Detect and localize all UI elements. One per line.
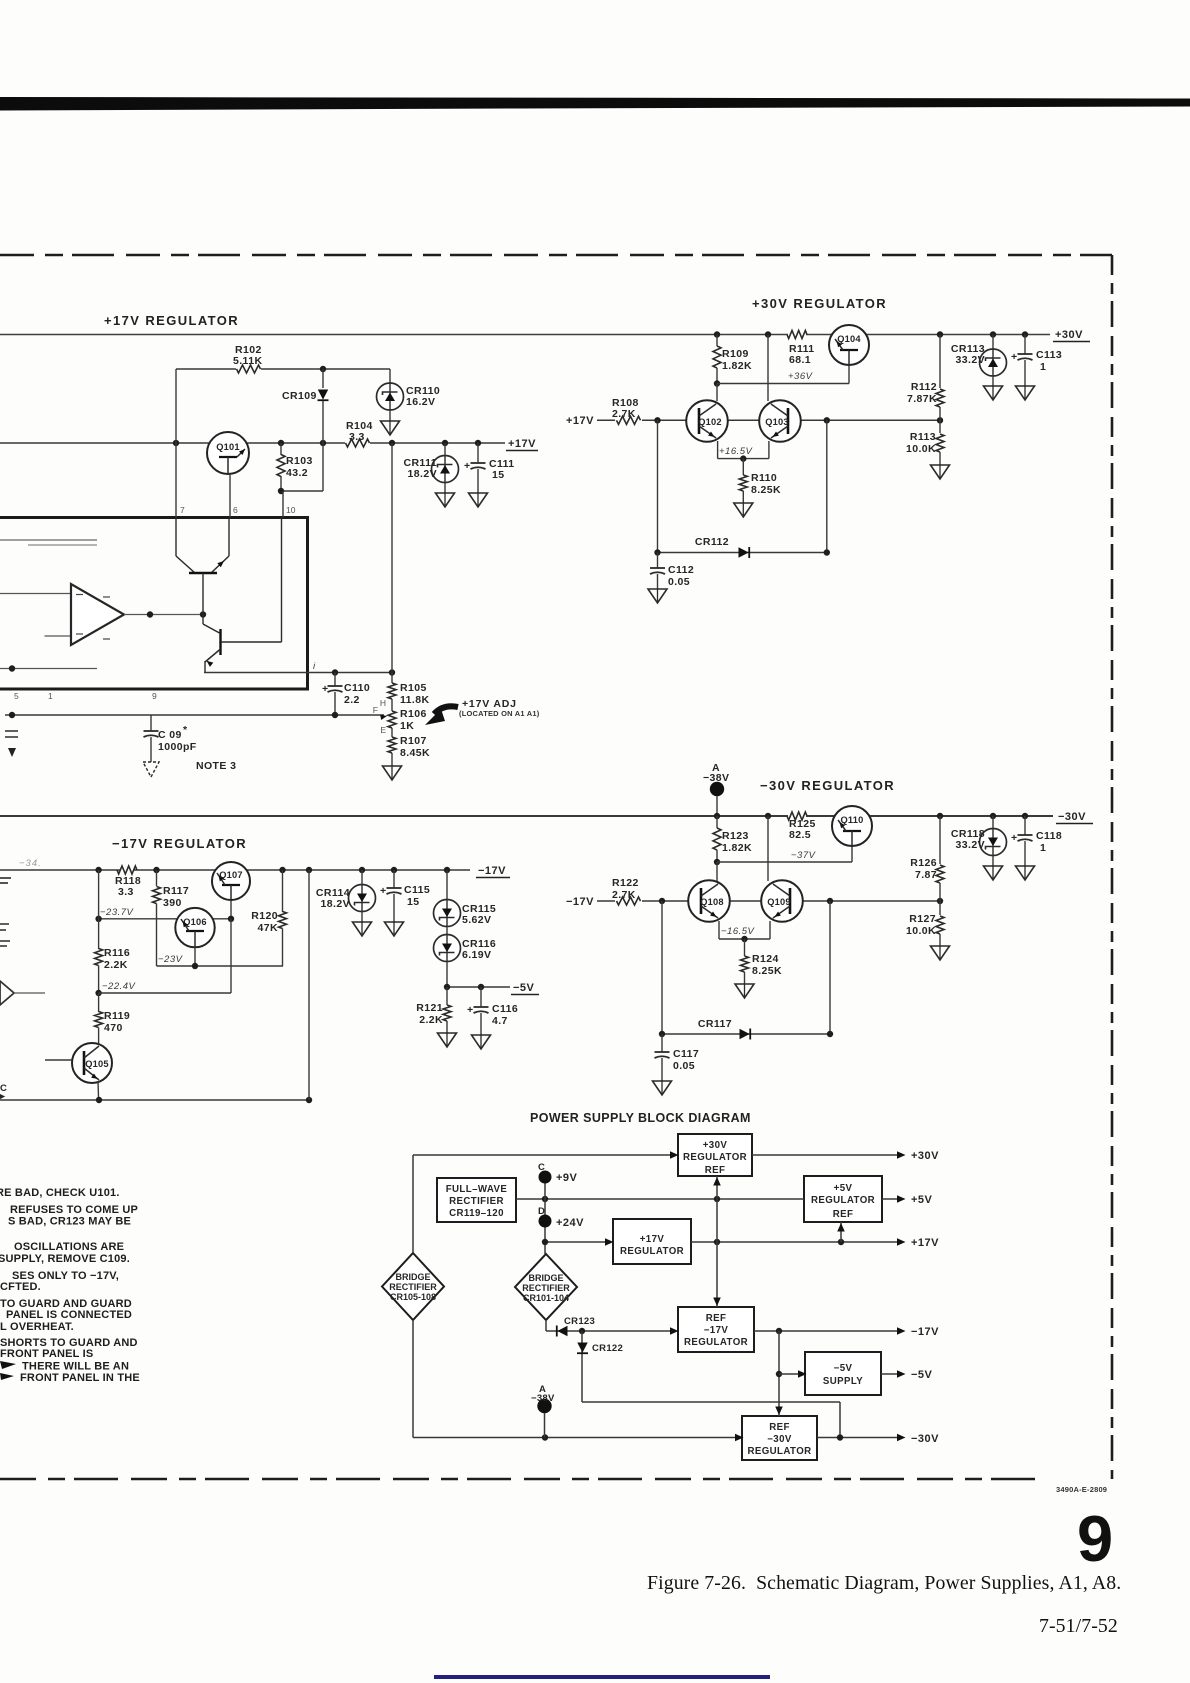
- svg-text:−30V: −30V: [1058, 811, 1086, 823]
- svg-text:R124: R124: [752, 953, 779, 965]
- svg-text:R112: R112: [911, 381, 937, 393]
- svg-text:+30V: +30V: [911, 1150, 939, 1162]
- svg-text:(LOCATED ON A1 A1): (LOCATED ON A1 A1): [459, 709, 540, 718]
- svg-text:C116: C116: [492, 1003, 518, 1015]
- svg-text:+17V: +17V: [911, 1237, 939, 1249]
- svg-text:5.11K: 5.11K: [233, 355, 262, 367]
- svg-text:7.87K: 7.87K: [907, 393, 937, 405]
- svg-text:−17V: −17V: [478, 865, 506, 877]
- svg-text:+5V: +5V: [911, 1194, 933, 1206]
- svg-text:REGULATOR: REGULATOR: [683, 1152, 747, 1163]
- svg-text:0.05: 0.05: [668, 576, 690, 588]
- svg-text:REGULATOR: REGULATOR: [684, 1337, 748, 1348]
- svg-text:C112: C112: [668, 564, 694, 576]
- svg-text:10.0K: 10.0K: [906, 925, 936, 937]
- svg-text:10: 10: [286, 505, 296, 515]
- svg-text:R103: R103: [286, 455, 313, 467]
- svg-text:SUPPLY, REMOVE C109.: SUPPLY, REMOVE C109.: [0, 1253, 130, 1265]
- svg-text:R107: R107: [400, 735, 427, 747]
- svg-text:FULL–WAVE: FULL–WAVE: [446, 1184, 508, 1195]
- svg-text:CR117: CR117: [698, 1018, 732, 1030]
- svg-text:1: 1: [1040, 361, 1046, 373]
- svg-text:8.25K: 8.25K: [751, 484, 781, 496]
- svg-text:R127: R127: [909, 913, 936, 925]
- svg-text:2.7K: 2.7K: [612, 889, 636, 901]
- svg-text:R120: R120: [251, 910, 278, 922]
- svg-text:R122: R122: [612, 877, 639, 889]
- svg-text:8.45K: 8.45K: [400, 747, 430, 759]
- svg-text:2.2K: 2.2K: [104, 959, 128, 971]
- svg-text:Q102: Q102: [698, 417, 722, 427]
- svg-text:1K: 1K: [400, 720, 414, 732]
- svg-text:R110: R110: [751, 472, 777, 484]
- svg-text:Figure 7-26. Schematic Diagra: Figure 7-26. Schematic Diagram, Power Su…: [647, 1572, 1121, 1594]
- svg-text:REGULATOR: REGULATOR: [811, 1195, 875, 1206]
- svg-text:CR109: CR109: [282, 390, 317, 402]
- svg-text:C115: C115: [404, 884, 430, 896]
- svg-text:Q109: Q109: [767, 897, 791, 907]
- svg-text:+: +: [464, 460, 471, 472]
- svg-text:+5V: +5V: [834, 1183, 853, 1194]
- svg-text:CR123: CR123: [564, 1316, 595, 1327]
- svg-text:1.82K: 1.82K: [722, 360, 752, 372]
- svg-text:L OVERHEAT.: L OVERHEAT.: [0, 1321, 74, 1333]
- svg-text:REF: REF: [706, 1313, 727, 1324]
- svg-text:−30V: −30V: [911, 1433, 939, 1445]
- svg-text:3.3: 3.3: [118, 886, 134, 898]
- svg-text:C113: C113: [1036, 349, 1062, 361]
- svg-text:+16.5V: +16.5V: [719, 446, 754, 457]
- svg-text:2.2: 2.2: [344, 694, 360, 706]
- svg-text:2.7K: 2.7K: [612, 408, 636, 420]
- svg-text:−16.5V: −16.5V: [721, 926, 756, 937]
- svg-text:−17V: −17V: [566, 896, 594, 908]
- svg-text:18.2V: 18.2V: [321, 898, 350, 910]
- svg-text:7: 7: [180, 505, 185, 515]
- svg-text:REF: REF: [769, 1422, 790, 1433]
- svg-text:+30V: +30V: [703, 1140, 728, 1151]
- svg-text:C 09: C 09: [158, 729, 182, 741]
- svg-text:THERE WILL BE AN: THERE WILL BE AN: [22, 1361, 129, 1373]
- svg-text:Q104: Q104: [837, 334, 861, 344]
- svg-text:−38V: −38V: [531, 1393, 555, 1404]
- svg-text:−17V REGULATOR: −17V REGULATOR: [112, 836, 247, 851]
- svg-text:4.7: 4.7: [492, 1015, 508, 1027]
- svg-text:R121: R121: [416, 1002, 443, 1014]
- svg-text:82.5: 82.5: [789, 829, 811, 841]
- svg-text:Q106: Q106: [183, 917, 207, 927]
- svg-text:−23V: −23V: [158, 954, 184, 965]
- svg-text:R126: R126: [910, 857, 937, 869]
- svg-text:3490A-E-2809: 3490A-E-2809: [1056, 1485, 1107, 1494]
- svg-text:R109: R109: [722, 348, 749, 360]
- svg-text:9: 9: [1077, 1502, 1113, 1575]
- svg-text:+9V: +9V: [556, 1172, 578, 1184]
- svg-text:−23.7V: −23.7V: [100, 907, 135, 918]
- svg-text:CR105-108: CR105-108: [390, 1292, 436, 1302]
- svg-text:REF: REF: [705, 1165, 726, 1176]
- svg-text:R113: R113: [910, 431, 936, 443]
- svg-text:C: C: [538, 1162, 545, 1173]
- svg-text:7-51/7-52: 7-51/7-52: [1039, 1615, 1118, 1637]
- svg-text:i: i: [313, 661, 316, 672]
- svg-text:+30V REGULATOR: +30V REGULATOR: [752, 296, 887, 311]
- svg-text:R119: R119: [104, 1010, 130, 1022]
- svg-text:−5V: −5V: [513, 982, 535, 994]
- svg-text:REGULATOR: REGULATOR: [747, 1446, 811, 1457]
- svg-text:0.05: 0.05: [673, 1060, 695, 1072]
- svg-text:CR112: CR112: [695, 536, 729, 548]
- svg-text:R123: R123: [722, 830, 749, 842]
- svg-text:CFTED.: CFTED.: [0, 1281, 41, 1293]
- svg-text:F: F: [373, 705, 378, 715]
- svg-text:C117: C117: [673, 1048, 699, 1060]
- svg-text:6: 6: [233, 505, 238, 515]
- svg-text:33.2V: 33.2V: [956, 839, 985, 851]
- svg-text:+: +: [467, 1004, 474, 1016]
- svg-text:−17V: −17V: [704, 1325, 729, 1336]
- svg-text:1.82K: 1.82K: [722, 842, 752, 854]
- svg-text:+24V: +24V: [556, 1217, 584, 1229]
- svg-text:1: 1: [1040, 842, 1046, 854]
- svg-text:C118: C118: [1036, 830, 1062, 842]
- svg-text:C110: C110: [344, 682, 370, 694]
- svg-text:PANEL IS CONNECTED: PANEL IS CONNECTED: [6, 1309, 132, 1321]
- svg-text:−30V REGULATOR: −30V REGULATOR: [760, 778, 895, 793]
- svg-text:+17V: +17V: [508, 438, 536, 450]
- svg-text:CR119–120: CR119–120: [449, 1208, 504, 1219]
- svg-text:Q105: Q105: [85, 1059, 109, 1069]
- svg-text:Q108: Q108: [700, 897, 724, 907]
- svg-text:5: 5: [14, 691, 19, 701]
- svg-text:−38V: −38V: [703, 772, 729, 784]
- svg-text:CR122: CR122: [592, 1343, 623, 1354]
- svg-text:−34.: −34.: [19, 858, 42, 869]
- svg-text:Q110: Q110: [840, 815, 863, 825]
- svg-text:−37V: −37V: [791, 850, 817, 861]
- svg-text:R116: R116: [104, 947, 130, 959]
- svg-text:CR101-104: CR101-104: [523, 1293, 569, 1303]
- svg-text:43.2: 43.2: [286, 467, 308, 479]
- svg-text:−30V: −30V: [767, 1434, 792, 1445]
- svg-text:Q103: Q103: [765, 417, 789, 427]
- svg-text:9: 9: [152, 691, 157, 701]
- svg-text:R117: R117: [163, 885, 189, 897]
- svg-text:10.0K: 10.0K: [906, 443, 936, 455]
- svg-text:15: 15: [407, 896, 419, 908]
- svg-text:3.3: 3.3: [349, 431, 365, 443]
- svg-text:R106: R106: [400, 708, 427, 720]
- svg-text:8.25K: 8.25K: [752, 965, 782, 977]
- svg-text:REGULATOR: REGULATOR: [620, 1246, 684, 1257]
- svg-text:OSCILLATIONS ARE: OSCILLATIONS ARE: [14, 1241, 124, 1253]
- svg-text:2.2K: 2.2K: [419, 1014, 443, 1026]
- svg-text:+30V: +30V: [1055, 329, 1083, 341]
- svg-text:E: E: [380, 725, 386, 735]
- svg-text:+: +: [1011, 351, 1018, 363]
- svg-text:Q101: Q101: [216, 442, 240, 452]
- svg-text:1000pF: 1000pF: [158, 741, 197, 753]
- svg-text:18.2V: 18.2V: [408, 468, 437, 480]
- svg-text:+: +: [322, 683, 329, 695]
- svg-text:390: 390: [163, 897, 182, 909]
- svg-text:H: H: [380, 698, 386, 708]
- svg-text:FRONT PANEL IN THE: FRONT PANEL IN THE: [20, 1372, 140, 1384]
- svg-text:47K: 47K: [258, 922, 278, 934]
- svg-text:+: +: [1011, 832, 1018, 844]
- svg-text:RECTIFIER: RECTIFIER: [522, 1283, 570, 1293]
- svg-text:−5V: −5V: [834, 1363, 853, 1374]
- svg-text:REFUSES TO COME UP: REFUSES TO COME UP: [10, 1204, 138, 1216]
- svg-text:+17V REGULATOR: +17V REGULATOR: [104, 313, 239, 328]
- svg-text:BRIDGE: BRIDGE: [395, 1272, 430, 1282]
- svg-text:+17V: +17V: [640, 1234, 665, 1245]
- svg-text:−17V: −17V: [911, 1326, 939, 1338]
- svg-text:REF: REF: [833, 1209, 854, 1220]
- svg-text:−5V: −5V: [911, 1369, 933, 1381]
- svg-text:RE BAD, CHECK U101.: RE BAD, CHECK U101.: [0, 1187, 120, 1199]
- svg-text:R105: R105: [400, 682, 427, 694]
- svg-text:S BAD, CR123 MAY BE: S BAD, CR123 MAY BE: [8, 1216, 131, 1228]
- svg-text:+36V: +36V: [788, 371, 814, 382]
- svg-text:BRIDGE: BRIDGE: [528, 1273, 563, 1283]
- svg-text:−22.4V: −22.4V: [102, 981, 137, 992]
- svg-text:RECTIFIER: RECTIFIER: [389, 1282, 437, 1292]
- svg-text:5.62V: 5.62V: [462, 914, 491, 926]
- svg-text:+17V: +17V: [566, 415, 594, 427]
- svg-text:6.19V: 6.19V: [462, 949, 491, 961]
- svg-text:33.2V: 33.2V: [956, 354, 985, 366]
- svg-text:+: +: [380, 885, 387, 897]
- svg-text:FRONT PANEL IS: FRONT PANEL IS: [0, 1348, 93, 1360]
- svg-text:11.8K: 11.8K: [400, 694, 429, 706]
- svg-text:*: *: [183, 724, 188, 736]
- svg-text:D: D: [538, 1206, 545, 1217]
- svg-text:15: 15: [492, 469, 504, 481]
- svg-text:NOTE 3: NOTE 3: [196, 760, 236, 772]
- svg-text:POWER SUPPLY BLOCK DIAGRAM: POWER SUPPLY BLOCK DIAGRAM: [530, 1111, 751, 1125]
- svg-text:68.1: 68.1: [789, 354, 811, 366]
- svg-text:SUPPLY: SUPPLY: [823, 1376, 863, 1387]
- svg-text:16.2V: 16.2V: [406, 396, 435, 408]
- svg-text:470: 470: [104, 1022, 123, 1034]
- svg-text:RECTIFIER: RECTIFIER: [449, 1196, 504, 1207]
- svg-text:7.87: 7.87: [915, 869, 937, 881]
- svg-text:1: 1: [48, 691, 53, 701]
